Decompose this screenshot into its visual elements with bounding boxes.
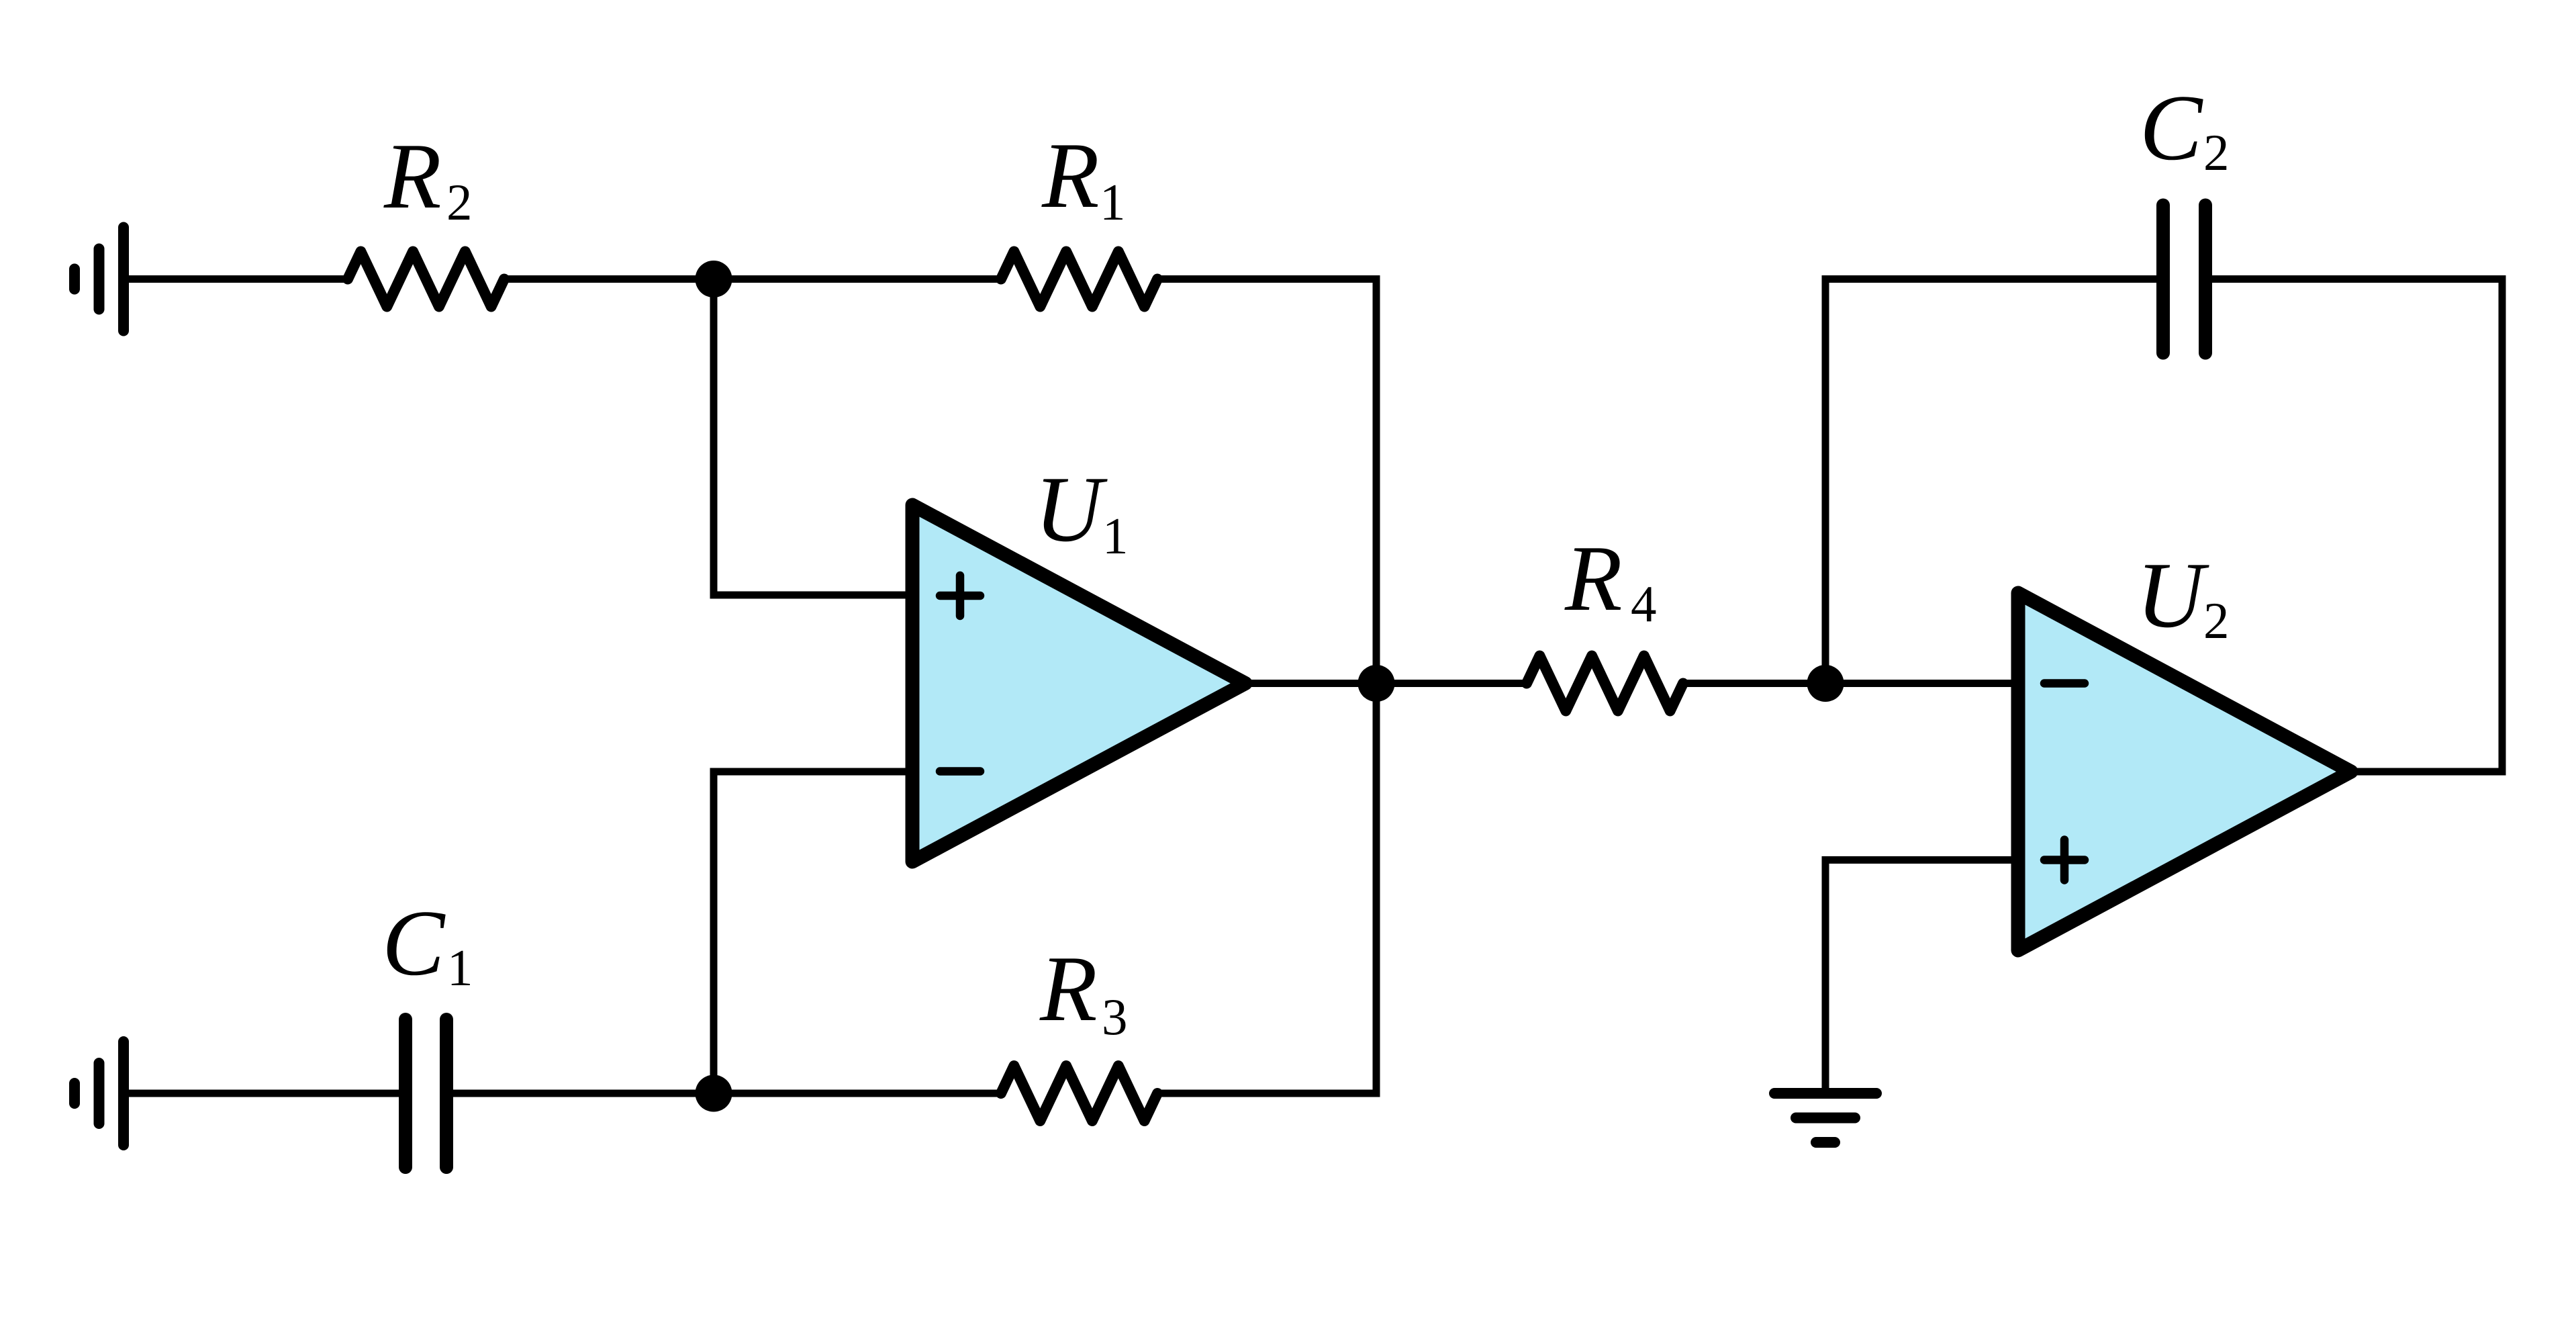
op-amp U1 xyxy=(912,505,1245,862)
wire top rail: R2 to R1 through node A xyxy=(504,275,1001,283)
svg-text:1: 1 xyxy=(1102,507,1129,565)
svg-text:R: R xyxy=(1039,937,1098,1041)
op-amp U2 minus sign xyxy=(2044,679,2085,688)
svg-text:R: R xyxy=(1564,527,1623,631)
ground (top-left input) xyxy=(75,228,124,331)
svg-text:C: C xyxy=(2140,76,2203,180)
wire: U2 + input left and down to ground xyxy=(1825,860,2018,1094)
ground (bottom-left input) xyxy=(75,1042,124,1145)
capacitor C2 xyxy=(2163,206,2205,353)
svg-text:2: 2 xyxy=(446,173,473,231)
capacitor C1 xyxy=(406,1019,446,1167)
wire: node A down to U1 + input xyxy=(714,279,912,596)
wire: node D up and right to C2 xyxy=(1825,279,2163,684)
wire: C2 right plate, corner down to U2 output xyxy=(2205,279,2502,772)
svg-text:1: 1 xyxy=(447,939,473,997)
svg-text:C: C xyxy=(382,891,446,995)
wire: R1 right end, corner down to R3 right end xyxy=(1158,279,1376,1094)
node A (R2/R1/U1+ junction) xyxy=(696,261,732,298)
svg-text:R: R xyxy=(383,124,442,228)
wire top rail: ground to R2 xyxy=(124,275,348,283)
op-amp U1 minus sign xyxy=(940,767,980,776)
op-amp U2 xyxy=(2018,593,2351,950)
resistor R3 xyxy=(1001,1066,1157,1121)
node B (C1/R3/U1- junction) xyxy=(696,1075,732,1112)
svg-text:R: R xyxy=(1041,124,1100,228)
svg-text:U: U xyxy=(1035,457,1108,561)
svg-text:1: 1 xyxy=(1100,173,1126,231)
resistor R4 xyxy=(1527,656,1683,711)
wire: U1 output to R4 xyxy=(1245,680,1527,687)
op-amp U2 plus sign xyxy=(2044,840,2085,880)
svg-text:4: 4 xyxy=(1631,575,1657,633)
svg-text:U: U xyxy=(2136,543,2209,647)
ground (below U2 + input) xyxy=(1774,1093,1876,1142)
resistor R2 xyxy=(348,252,504,307)
node D (R4/C2/U2- junction) xyxy=(1807,665,1844,702)
wire bottom rail: C1 to R3 through node B xyxy=(446,1090,1001,1097)
svg-text:2: 2 xyxy=(2203,124,2230,181)
svg-text:2: 2 xyxy=(2203,592,2230,649)
wire bottom rail: ground to C1 xyxy=(124,1090,406,1097)
wire: node B up to U1 - input xyxy=(714,772,912,1093)
node C (U1 output junction) xyxy=(1358,665,1395,702)
svg-text:3: 3 xyxy=(1102,988,1128,1046)
resistor R1 xyxy=(1001,252,1157,307)
wire: R4 to U2 - input through node D xyxy=(1684,680,2018,687)
op-amp U1 plus sign xyxy=(940,576,980,616)
